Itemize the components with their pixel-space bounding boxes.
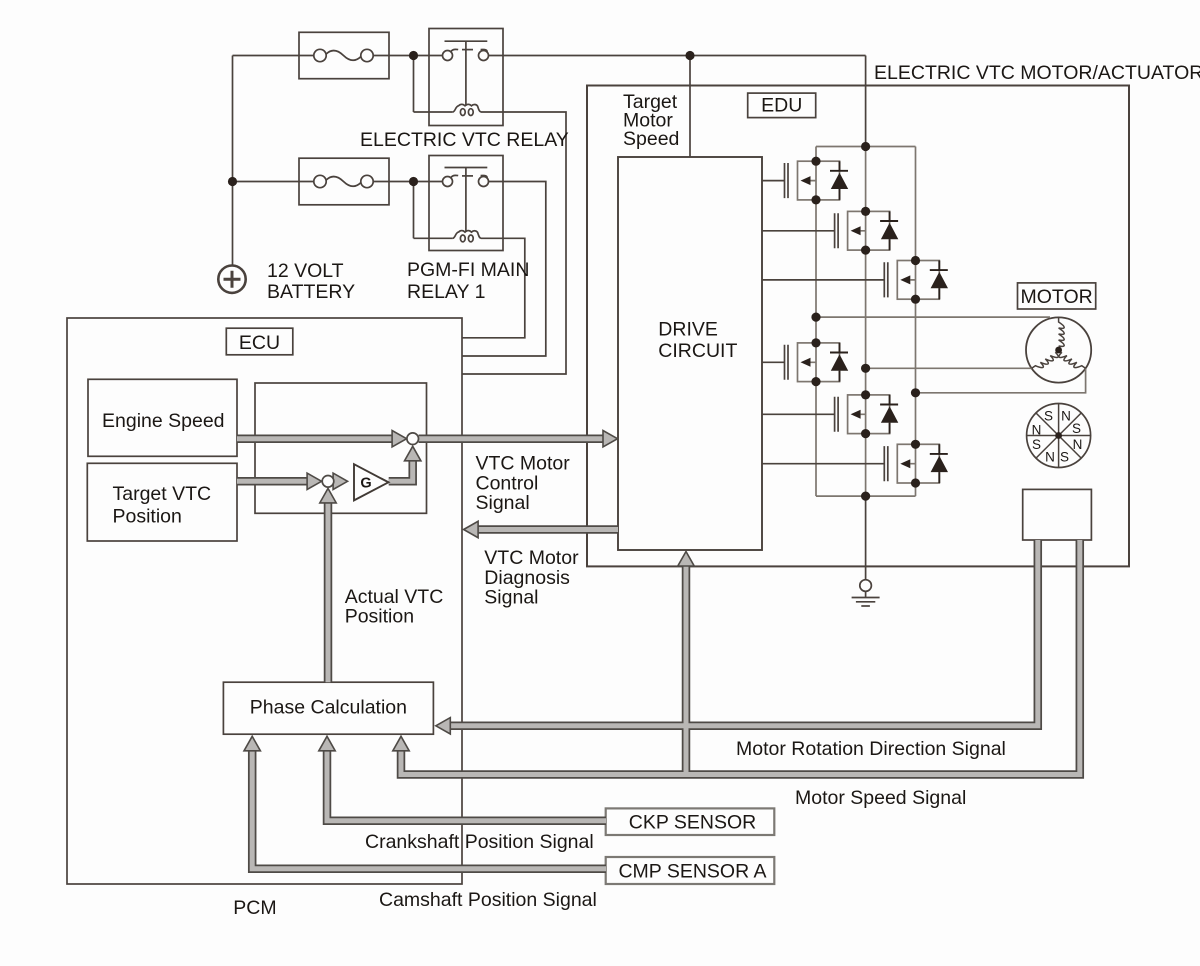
svg-text:RELAY 1: RELAY 1 xyxy=(407,281,485,303)
svg-text:Position: Position xyxy=(113,506,182,528)
svg-text:EDU: EDU xyxy=(761,95,802,117)
svg-text:S: S xyxy=(1044,408,1053,423)
svg-text:Motor Rotation Direction Signa: Motor Rotation Direction Signal xyxy=(736,738,1006,760)
svg-text:Position: Position xyxy=(345,606,414,628)
svg-text:Engine Speed: Engine Speed xyxy=(102,410,225,432)
svg-text:Actual VTC: Actual VTC xyxy=(345,586,444,608)
svg-text:CIRCUIT: CIRCUIT xyxy=(658,340,737,362)
svg-text:S: S xyxy=(1032,437,1041,452)
svg-text:N: N xyxy=(1032,423,1042,438)
svg-text:CKP SENSOR: CKP SENSOR xyxy=(629,812,757,834)
svg-text:G: G xyxy=(360,476,371,492)
svg-text:MOTOR: MOTOR xyxy=(1020,286,1092,308)
svg-text:Phase Calculation: Phase Calculation xyxy=(250,697,407,719)
svg-text:ECU: ECU xyxy=(239,332,280,354)
svg-text:PGM-FI MAIN: PGM-FI MAIN xyxy=(407,259,529,281)
svg-text:S: S xyxy=(1060,450,1069,465)
svg-text:DRIVE: DRIVE xyxy=(658,319,718,341)
svg-text:BATTERY: BATTERY xyxy=(267,281,355,303)
svg-text:CMP SENSOR A: CMP SENSOR A xyxy=(618,861,766,883)
svg-text:N: N xyxy=(1045,450,1055,465)
svg-text:12 VOLT: 12 VOLT xyxy=(267,260,344,282)
svg-text:Control: Control xyxy=(476,472,539,494)
svg-text:N: N xyxy=(1061,408,1071,423)
svg-text:VTC Motor: VTC Motor xyxy=(484,547,579,569)
svg-text:VTC Motor: VTC Motor xyxy=(476,453,571,475)
svg-text:Speed: Speed xyxy=(623,128,679,150)
svg-text:ELECTRIC VTC MOTOR/ACTUATOR: ELECTRIC VTC MOTOR/ACTUATOR xyxy=(874,62,1200,84)
svg-text:Signal: Signal xyxy=(484,587,538,609)
svg-text:Camshaft Position Signal: Camshaft Position Signal xyxy=(379,889,597,911)
svg-text:Diagnosis: Diagnosis xyxy=(484,567,570,589)
svg-text:Motor Speed Signal: Motor Speed Signal xyxy=(795,787,966,809)
svg-text:N: N xyxy=(1073,437,1083,452)
svg-text:S: S xyxy=(1072,421,1081,436)
svg-text:ELECTRIC VTC RELAY: ELECTRIC VTC RELAY xyxy=(360,129,569,151)
svg-text:PCM: PCM xyxy=(233,897,276,919)
svg-text:Crankshaft Position Signal: Crankshaft Position Signal xyxy=(365,831,594,853)
svg-text:Target VTC: Target VTC xyxy=(113,483,212,505)
svg-text:Signal: Signal xyxy=(476,492,530,514)
